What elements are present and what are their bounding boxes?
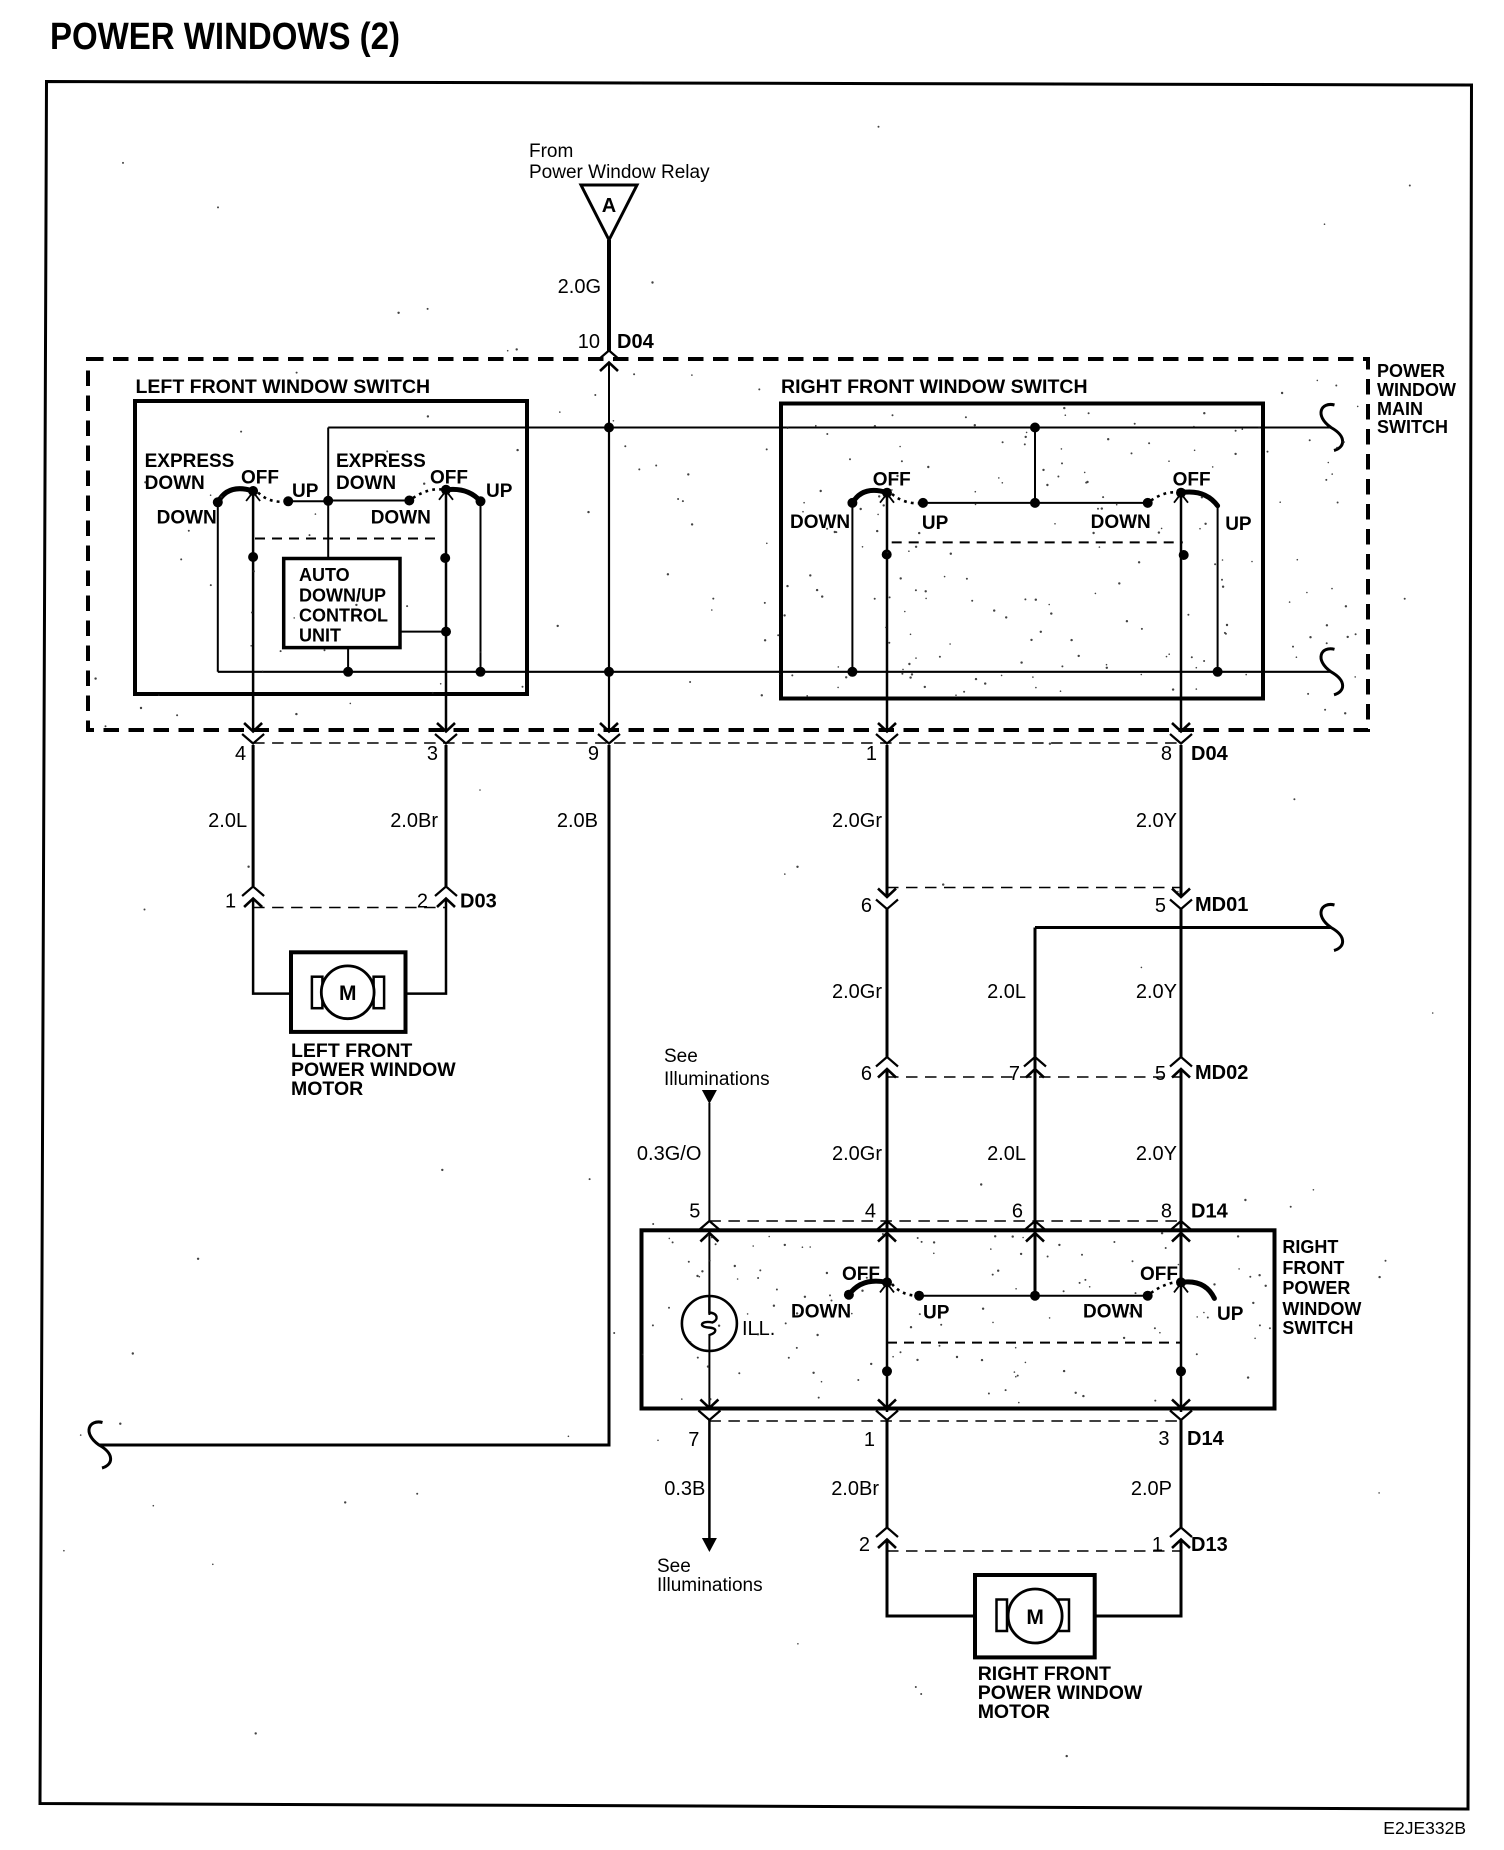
svg-text:2.0P: 2.0P — [1131, 1478, 1172, 1500]
wire D13 pin2 to motor — [887, 1540, 975, 1617]
wire control unit bottom — [347, 648, 349, 672]
connector MD01 pin 6 chevrons — [876, 900, 898, 910]
node linkage left — [248, 552, 258, 562]
svg-text:MAIN: MAIN — [1377, 399, 1423, 419]
svg-text:D13: D13 — [1191, 1534, 1228, 1556]
svg-text:4: 4 — [865, 1201, 876, 1223]
connector D03 dashed line — [253, 907, 446, 909]
wire control unit right — [400, 631, 446, 633]
wire switch2 OFF to pin 3 — [445, 490, 448, 731]
svg-text:POWER: POWER — [1377, 361, 1445, 381]
connector D04 dashed line — [253, 742, 1181, 744]
svg-text:M: M — [1026, 1606, 1044, 1629]
node right box center junction — [1030, 498, 1040, 508]
arrow to illuminations — [702, 1538, 717, 1552]
wire 2.0Y MD01 to MD02 — [1180, 909, 1183, 1058]
switch5 wiper arc — [849, 1281, 887, 1295]
switch linkage dashed right box — [892, 541, 1183, 543]
wire switch5 contact row — [919, 1295, 1148, 1297]
svg-text:2.0Gr: 2.0Gr — [832, 810, 882, 832]
svg-text:2.0Br: 2.0Br — [390, 810, 438, 832]
connector D04 pin 8 chevrons — [1170, 734, 1192, 744]
wire 2.0B horizontal to continuation — [99, 1444, 611, 1447]
node UP2 bus junction — [476, 667, 486, 677]
connector D14 pin 7 chevrons — [698, 1411, 720, 1421]
node feed junction right box — [1030, 423, 1040, 433]
label From Power Window Relay — [529, 141, 710, 183]
switch3 UP contact — [918, 498, 928, 508]
wire switch4 OFF to pin 8 — [1180, 493, 1183, 731]
svg-text:2.0Br: 2.0Br — [831, 1478, 879, 1500]
wire 2.0Br pin3 to D03 — [445, 745, 448, 886]
connector D04 pin 4 chevrons — [242, 734, 264, 744]
node control unit right junction — [441, 627, 451, 637]
wire internal feed horizontal — [328, 427, 1331, 429]
connector D14 pin 5 chevrons — [698, 1221, 720, 1231]
svg-text:5: 5 — [1155, 1063, 1166, 1085]
connector D14 pin 8 chevrons — [1170, 1221, 1192, 1231]
wire D13 pin1 to motor — [1095, 1540, 1181, 1617]
svg-text:10: 10 — [578, 331, 600, 353]
switch3 OFF contact — [882, 488, 892, 498]
svg-text:LEFT FRONT WINDOW SWITCH: LEFT FRONT WINDOW SWITCH — [136, 376, 431, 398]
svg-text:OFF: OFF — [241, 468, 279, 489]
switch2 UP contact — [476, 496, 486, 506]
svg-text:UP: UP — [292, 481, 319, 502]
connector D03 pin 2 chevrons — [435, 887, 457, 897]
switch6 DOWN contact — [1143, 1291, 1153, 1301]
label EXPRESS DOWN switch2 — [336, 451, 426, 494]
label AUTO DOWN/UP CONTROL UNIT — [299, 565, 388, 646]
svg-text:AUTO: AUTO — [299, 565, 350, 585]
svg-text:UP: UP — [922, 513, 949, 534]
wire D03 pin2 to motor — [406, 899, 447, 994]
left front window switch box — [135, 401, 527, 694]
connector MD02 pin 7 chevrons — [1024, 1057, 1046, 1067]
wire 2.0Y pin8 to MD01 — [1180, 745, 1183, 897]
label RIGHT FRONT POWER WINDOW SWITCH — [1282, 1237, 1361, 1338]
svg-text:Power Window Relay: Power Window Relay — [529, 162, 710, 183]
svg-text:UP: UP — [1217, 1304, 1244, 1325]
svg-text:3: 3 — [427, 743, 438, 765]
node switch4 UP bus junction — [1213, 667, 1223, 677]
node pin6 junction — [1030, 1291, 1040, 1301]
motor2 brush right — [1059, 1600, 1070, 1632]
wire switch1 center drop — [327, 428, 329, 559]
svg-text:D04: D04 — [617, 331, 655, 353]
power window main switch dashed box — [88, 359, 1368, 730]
svg-text:7: 7 — [1009, 1063, 1020, 1085]
svg-text:OFF: OFF — [1140, 1264, 1178, 1285]
wire switch3 DOWN drop — [851, 503, 853, 672]
right front power window switch box — [642, 1230, 1275, 1408]
svg-text:DOWN: DOWN — [145, 473, 205, 494]
wire switch5 OFF to pin 1 — [886, 1282, 889, 1412]
switch4 wiper arrow — [1174, 494, 1188, 503]
svg-text:EXPRESS: EXPRESS — [145, 451, 235, 472]
svg-text:7: 7 — [688, 1429, 699, 1451]
switch1 UP contact — [283, 496, 293, 506]
svg-text:M: M — [339, 982, 357, 1005]
switch2 dotted link DOWN-OFF — [413, 489, 442, 498]
svg-text:1: 1 — [1152, 1534, 1163, 1556]
switch1 DOWN contact — [213, 497, 223, 507]
switch2 wiper arrow — [439, 491, 453, 500]
connector D14 pin 6 chevrons — [1024, 1221, 1046, 1231]
node linkage right box a — [882, 550, 892, 560]
left front power window motor box — [291, 952, 406, 1032]
squiggle continuation 2.0B left — [89, 1422, 111, 1468]
wire 2.0P to D13 — [1180, 1420, 1183, 1528]
svg-text:6: 6 — [861, 895, 872, 917]
svg-text:Illuminations: Illuminations — [657, 1575, 763, 1596]
connector D13 pin 2 chevrons — [876, 1528, 898, 1538]
svg-text:Illuminations: Illuminations — [664, 1069, 770, 1090]
svg-text:9: 9 — [588, 743, 599, 765]
wire switch4 UP drop — [1217, 506, 1219, 672]
wire lamp bottom — [708, 1334, 710, 1410]
wire 0.3G/O — [708, 1103, 710, 1221]
node linkage right — [440, 553, 450, 563]
connector D04 pin 3 chevrons — [435, 734, 457, 744]
svg-text:2.0L: 2.0L — [208, 810, 247, 832]
wire 2.0Gr pin1 to MD01 — [886, 745, 889, 897]
squiggle continuation top right — [1321, 404, 1343, 450]
switch linkage dashed bottom box — [887, 1342, 1181, 1344]
svg-text:From: From — [529, 141, 573, 162]
wire pin4 into switch5 — [886, 1230, 889, 1282]
svg-text:OFF: OFF — [1173, 469, 1211, 490]
svg-text:DOWN: DOWN — [791, 1302, 851, 1323]
svg-text:1: 1 — [864, 1429, 875, 1451]
wire right box contact row — [923, 502, 1148, 504]
svg-text:MOTOR: MOTOR — [978, 1701, 1050, 1723]
motor brush left — [312, 977, 323, 1009]
wire from D04 pin 10 into main switch — [608, 363, 610, 428]
svg-text:OFF: OFF — [430, 468, 468, 489]
svg-text:POWER: POWER — [1282, 1278, 1350, 1298]
motor2 brush left — [997, 1600, 1008, 1632]
wire 0.3B — [708, 1420, 711, 1539]
svg-text:2.0L: 2.0L — [987, 1143, 1026, 1165]
svg-text:2.0Y: 2.0Y — [1136, 1143, 1177, 1165]
connector D13 pin 1 chevrons — [1170, 1528, 1192, 1538]
wire MD01 branch horizontal — [1035, 926, 1331, 929]
connector D14 pin 1 chevrons — [876, 1411, 898, 1421]
wire main vertical to pin 9 — [608, 428, 610, 732]
svg-text:0.3B: 0.3B — [664, 1478, 705, 1500]
svg-text:UP: UP — [486, 481, 513, 502]
wire 2.0Br to D13 — [886, 1420, 889, 1528]
svg-text:5: 5 — [689, 1201, 700, 1223]
connector D04 pin 10 chevrons — [598, 351, 620, 361]
svg-text:EXPRESS: EXPRESS — [336, 451, 426, 472]
connector MD02 pin 5 chevrons — [1170, 1057, 1192, 1067]
svg-text:SWITCH: SWITCH — [1282, 1318, 1353, 1338]
svg-text:2.0Y: 2.0Y — [1136, 810, 1177, 832]
svg-text:D14: D14 — [1187, 1428, 1225, 1450]
svg-text:ILL.: ILL. — [742, 1318, 775, 1340]
svg-text:DOWN: DOWN — [336, 473, 396, 494]
connector MD01 pin 5 chevrons — [1170, 900, 1192, 910]
label RIGHT FRONT POWER WINDOW MOTOR — [978, 1663, 1143, 1723]
switch linkage dashed left box — [255, 538, 440, 540]
svg-text:POWER WINDOWS (2): POWER WINDOWS (2) — [50, 16, 400, 58]
svg-text:DOWN: DOWN — [157, 508, 217, 529]
label See Illuminations top — [664, 1046, 770, 1090]
svg-text:2: 2 — [417, 891, 428, 913]
switch6 wiper arrow — [1174, 1283, 1188, 1292]
svg-text:See: See — [664, 1046, 698, 1067]
svg-text:8: 8 — [1161, 1201, 1172, 1223]
svg-text:1: 1 — [225, 891, 236, 913]
motor M1 circle — [321, 966, 374, 1019]
svg-text:WINDOW: WINDOW — [1282, 1299, 1361, 1319]
connector D14 top dashed line — [709, 1220, 1181, 1222]
svg-text:DOWN/UP: DOWN/UP — [299, 586, 386, 606]
wire D03 pin1 to motor — [253, 899, 291, 994]
connector MD02 pin 6 chevrons — [876, 1057, 898, 1067]
wire 2.0Gr MD02 to D14 — [886, 1069, 889, 1282]
svg-text:2.0B: 2.0B — [557, 810, 598, 832]
switch6 OFF contact — [1176, 1277, 1186, 1287]
switch3 wiper arc — [852, 490, 887, 503]
switch5 UP contact — [914, 1291, 924, 1301]
wire switch3 OFF to pin 1 — [886, 493, 889, 731]
lamp ILL circle — [682, 1296, 737, 1351]
switch2 OFF contact — [441, 485, 451, 495]
wire switch1 OFF to pin 4 — [252, 491, 255, 731]
svg-text:FRONT: FRONT — [1282, 1258, 1344, 1278]
svg-text:D03: D03 — [460, 891, 497, 913]
svg-text:MD01: MD01 — [1195, 894, 1248, 916]
svg-text:DOWN: DOWN — [371, 508, 431, 529]
switch5 DOWN contact — [844, 1290, 854, 1300]
svg-text:DOWN: DOWN — [1091, 512, 1151, 533]
switch1 dotted link OFF-UP — [258, 493, 288, 502]
label EXPRESS DOWN switch1 — [145, 451, 235, 494]
connector D04 pin 9 chevrons — [598, 734, 620, 744]
svg-text:UNIT: UNIT — [299, 626, 341, 646]
node center junction switch row — [323, 496, 333, 506]
svg-text:6: 6 — [861, 1063, 872, 1085]
lamp filament — [702, 1297, 717, 1335]
svg-text:UP: UP — [923, 1303, 950, 1324]
label POWER WINDOW MAIN SWITCH — [1377, 361, 1456, 437]
connector D13 dashed line — [887, 1550, 1181, 1552]
node linkage bottom box b — [1176, 1366, 1186, 1376]
connector MD01 dashed line — [887, 887, 1181, 889]
connector D03 pin 1 chevrons — [242, 887, 264, 897]
auto down/up control unit box — [284, 559, 400, 648]
wire switch2 UP drop — [480, 501, 482, 672]
label LEFT FRONT POWER WINDOW MOTOR — [291, 1040, 456, 1100]
switch5 dotted link OFF-UP — [892, 1284, 919, 1296]
svg-text:D04: D04 — [1191, 743, 1229, 765]
switch3 dotted link OFF-UP — [892, 494, 923, 503]
svg-text:3: 3 — [1158, 1428, 1169, 1450]
svg-text:RIGHT FRONT WINDOW SWITCH: RIGHT FRONT WINDOW SWITCH — [781, 376, 1088, 398]
svg-text:2.0L: 2.0L — [987, 981, 1026, 1003]
wire ground bus horizontal — [218, 671, 1331, 673]
switch6 wiper arc — [1181, 1282, 1214, 1299]
arrow from illuminations — [702, 1090, 717, 1104]
switch6 dotted link DOWN-OFF — [1151, 1282, 1177, 1293]
svg-text:See: See — [657, 1556, 691, 1577]
svg-text:2.0Y: 2.0Y — [1136, 981, 1177, 1003]
switch1 OFF contact — [248, 486, 258, 496]
squiggle continuation MD01 right — [1321, 904, 1343, 950]
svg-text:D14: D14 — [1191, 1201, 1229, 1223]
wire right box center drop — [1034, 428, 1036, 503]
switch2 wiper arc — [446, 489, 481, 501]
svg-text:OFF: OFF — [873, 469, 911, 490]
svg-text:2: 2 — [859, 1534, 870, 1556]
svg-text:2.0Gr: 2.0Gr — [832, 1143, 882, 1165]
connector D14 bottom dashed line — [709, 1420, 1181, 1422]
wire lamp top — [708, 1230, 710, 1315]
svg-text:RIGHT: RIGHT — [1282, 1237, 1338, 1257]
switch4 dotted link DOWN-OFF — [1151, 492, 1177, 500]
connector D14 pin 4 chevrons — [876, 1221, 898, 1231]
wire 2.0L vertical — [1034, 928, 1037, 1296]
svg-text:E2JE332B: E2JE332B — [1383, 1818, 1466, 1838]
svg-text:5: 5 — [1155, 895, 1166, 917]
switch4 DOWN contact — [1143, 498, 1153, 508]
svg-text:SWITCH: SWITCH — [1377, 417, 1448, 437]
svg-text:6: 6 — [1012, 1201, 1023, 1223]
wire 2.0Gr MD01 to MD02 — [886, 909, 889, 1058]
connector triangle A from power window relay — [581, 185, 637, 240]
switch1 wiper arc — [218, 489, 253, 503]
node switch3 DOWN bus junction — [847, 667, 857, 677]
wire 2.0G from triangle A to D04 pin 10 — [607, 240, 611, 351]
motor brush right — [374, 977, 385, 1009]
svg-text:DOWN: DOWN — [1083, 1302, 1143, 1323]
svg-text:MOTOR: MOTOR — [291, 1078, 363, 1100]
wire switch1 DOWN drop — [217, 502, 219, 672]
svg-text:2.0G: 2.0G — [558, 276, 601, 298]
switch4 OFF contact — [1176, 488, 1186, 498]
connector MD02 dashed line — [887, 1076, 1181, 1078]
switch3 wiper arrow — [880, 494, 894, 503]
node feed junction at main vertical — [604, 423, 614, 433]
wire center to DOWN2 — [328, 500, 409, 502]
svg-text:DOWN: DOWN — [790, 512, 850, 533]
svg-text:WINDOW: WINDOW — [1377, 380, 1456, 400]
svg-text:CONTROL: CONTROL — [299, 606, 388, 626]
wire 2.0B vertical — [608, 745, 611, 1445]
motor M2 circle — [1008, 1589, 1062, 1643]
wire switch6 OFF to pin 3 — [1180, 1282, 1183, 1412]
switch4 wiper arc — [1181, 492, 1218, 506]
connector D04 pin 1 chevrons — [876, 734, 898, 744]
node control unit bottom junction — [343, 667, 353, 677]
squiggle continuation bus right — [1321, 649, 1343, 695]
svg-text:1: 1 — [866, 743, 877, 765]
connector D14 pin 3 chevrons — [1170, 1411, 1192, 1421]
label See Illuminations bottom — [657, 1556, 763, 1596]
node bus main vertical junction — [604, 667, 614, 677]
switch5 wiper arrow — [880, 1283, 894, 1292]
svg-text:2.0Gr: 2.0Gr — [832, 981, 882, 1003]
svg-text:4: 4 — [235, 743, 246, 765]
svg-text:MD02: MD02 — [1195, 1062, 1248, 1084]
wire 2.0Y MD02 to D14 — [1180, 1069, 1183, 1282]
right front window switch box — [781, 404, 1263, 699]
svg-text:8: 8 — [1161, 743, 1172, 765]
svg-text:A: A — [602, 195, 616, 217]
wire UP1 to center — [288, 500, 328, 502]
switch5 OFF contact — [882, 1277, 892, 1287]
switch1 wiper arrow — [246, 492, 260, 501]
svg-text:0.3G/O: 0.3G/O — [637, 1143, 701, 1165]
node linkage bottom box a — [882, 1366, 892, 1376]
node linkage right box b — [1179, 550, 1189, 560]
switch2 DOWN contact — [404, 496, 414, 506]
wire 2.0L pin4 to D03 — [252, 745, 255, 886]
svg-text:UP: UP — [1225, 514, 1252, 535]
right front power window motor box — [975, 1575, 1095, 1657]
switch3 DOWN contact — [847, 498, 857, 508]
